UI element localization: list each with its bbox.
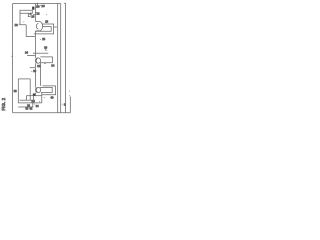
node dot staple b — [46, 85, 47, 86]
wire step leg 1 — [20, 13, 26, 24]
svg-text:30: 30 — [26, 108, 29, 111]
wire center spine segment 1 — [34, 4, 36, 22]
wire left boundary line — [12, 4, 14, 113]
label 30 tick — [44, 48, 46, 50]
node dot right 2 — [62, 104, 63, 105]
wire top outer staple — [34, 24, 54, 34]
svg-text:28: 28 — [42, 37, 45, 41]
node dot step — [23, 21, 24, 22]
node middle circle inner arc — [36, 58, 37, 62]
wire tick below staple — [44, 63, 45, 65]
node top circle — [36, 21, 43, 30]
wire top boundary line — [13, 3, 61, 5]
node middle circle — [35, 58, 40, 63]
wire bottom bar left leg — [25, 96, 27, 101]
wire center spine segment 4 — [34, 93, 36, 96]
label 26 leader — [28, 13, 30, 16]
wire bottom inner staple — [40, 87, 52, 92]
wire bottom bar top — [26, 95, 41, 97]
svg-text:26: 26 — [31, 14, 34, 18]
svg-text:18: 18 — [45, 20, 48, 24]
wire bottom-right stub — [69, 97, 71, 113]
label 22 tick — [35, 12, 36, 14]
svg-text:34: 34 — [51, 64, 54, 68]
wire bottom line 103 — [18, 102, 42, 104]
wire middle staple — [40, 57, 52, 63]
svg-text:26: 26 — [32, 100, 36, 103]
svg-text:FIG. 2: FIG. 2 — [1, 97, 6, 110]
svg-text:40: 40 — [51, 95, 54, 99]
node top circle inner arc — [36, 23, 38, 29]
wire middle ledge 2 — [30, 67, 36, 69]
node dot 10 — [40, 5, 41, 6]
node dot 36 — [31, 71, 32, 72]
wire center spine segment 3 — [34, 63, 36, 87]
svg-text:22: 22 — [37, 12, 40, 16]
wire bottom line 100 — [20, 99, 32, 101]
node dot 28 — [40, 39, 41, 40]
wire bottom boundary line — [13, 112, 71, 114]
node dot bar — [33, 14, 34, 15]
node dot 26 — [30, 16, 31, 17]
wire bottom outer staple — [42, 86, 56, 95]
node dot leg1 — [19, 24, 20, 25]
wire leader to layer A — [54, 26, 57, 28]
wire middle ledge 1 — [27, 54, 35, 56]
wire center spine segment 2 — [34, 31, 36, 58]
wire layer line C — [64, 3, 66, 113]
label 10 leader — [37, 3, 39, 6]
wire top inner staple — [36, 27, 51, 32]
svg-text:34: 34 — [36, 104, 39, 108]
wire shelf right leg — [29, 79, 31, 100]
node bottom circle — [35, 87, 40, 92]
wire bottom line 107 — [18, 106, 33, 108]
node bottom circle inner arc — [36, 88, 37, 92]
node dot 30 — [46, 50, 47, 51]
svg-text:30: 30 — [44, 45, 47, 49]
node top bar — [20, 10, 32, 13]
node dot bottom b — [34, 104, 35, 105]
svg-text:32: 32 — [30, 107, 33, 110]
wire layer line A — [57, 4, 59, 113]
node dot bottom a — [39, 101, 40, 102]
wire bottom right leg — [41, 93, 43, 103]
node dot leader24 — [33, 53, 34, 54]
node dot far right b — [69, 95, 70, 96]
wire dot bar tick — [34, 14, 36, 16]
wire tick 103-107 — [32, 103, 34, 107]
node dot line100 — [20, 100, 21, 101]
node dot 38 — [16, 90, 17, 91]
capacitor C1 black contact — [32, 7, 34, 10]
svg-text:36: 36 — [33, 69, 36, 73]
svg-text:20: 20 — [36, 4, 40, 8]
node leader dot — [56, 27, 57, 28]
wire lower shelf — [18, 78, 30, 80]
node dot far right a — [69, 91, 70, 92]
node dot upper right — [46, 14, 47, 15]
wire bottom bar inner leg — [33, 96, 35, 103]
wire step leg 2 — [26, 25, 35, 37]
wire shelf left leg — [17, 79, 19, 103]
wire right drop line — [40, 63, 42, 86]
wire layer line B — [60, 4, 62, 113]
svg-text:16: 16 — [15, 23, 18, 27]
wire leader24 — [33, 52, 48, 54]
svg-text:10: 10 — [41, 4, 45, 8]
capacitor C2 black contact — [33, 94, 36, 96]
svg-text:24: 24 — [25, 51, 28, 55]
node dot 40 — [44, 97, 45, 98]
node dot left mid — [11, 56, 12, 57]
